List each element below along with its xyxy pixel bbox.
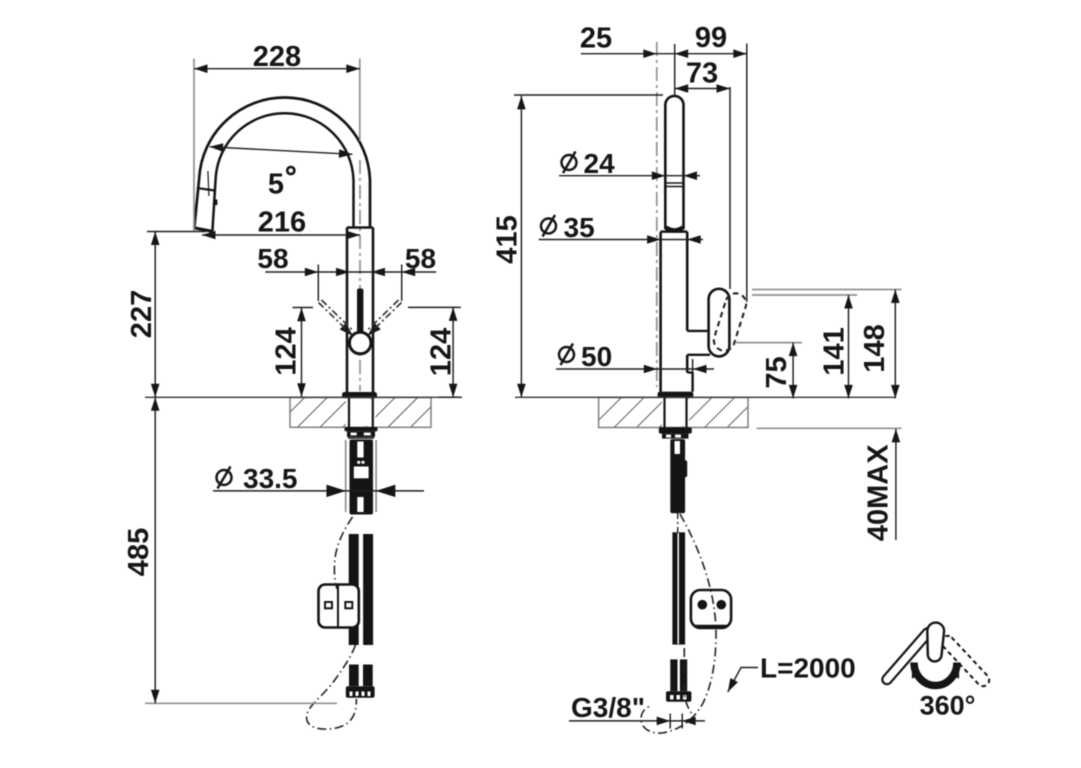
svg-text:35: 35 — [564, 212, 595, 243]
svg-text:L=2000: L=2000 — [760, 653, 856, 684]
svg-text:75: 75 — [761, 356, 793, 388]
svg-text:25: 25 — [580, 23, 612, 55]
svg-text:58: 58 — [405, 243, 436, 274]
svg-text:141: 141 — [819, 327, 851, 375]
svg-text:24: 24 — [584, 148, 616, 179]
svg-text:124: 124 — [426, 328, 458, 376]
svg-text:148: 148 — [859, 324, 891, 372]
svg-text:485: 485 — [123, 528, 155, 576]
svg-text:227: 227 — [126, 290, 158, 338]
svg-text:415: 415 — [492, 215, 524, 263]
svg-text:G3/8": G3/8" — [571, 692, 645, 723]
svg-text:73: 73 — [686, 58, 718, 90]
svg-text:99: 99 — [695, 22, 727, 54]
svg-text:40MAX: 40MAX — [863, 444, 895, 541]
svg-text:124: 124 — [271, 327, 303, 375]
svg-text:360°: 360° — [920, 691, 976, 721]
svg-text:228: 228 — [253, 41, 301, 73]
svg-text:33.5: 33.5 — [243, 463, 298, 494]
svg-text:5: 5 — [268, 169, 284, 201]
svg-text:58: 58 — [257, 243, 288, 274]
svg-text:216: 216 — [258, 207, 306, 239]
svg-text:50: 50 — [581, 341, 612, 372]
